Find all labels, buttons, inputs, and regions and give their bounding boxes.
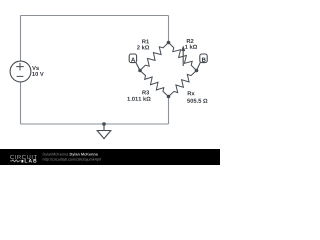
resistor Rx	[169, 71, 197, 97]
label Vs	[32, 66, 39, 70]
label R2	[187, 39, 194, 43]
value 1 kOhm	[185, 45, 197, 49]
wire left upper	[20, 16, 22, 62]
resistor R1	[140, 43, 169, 71]
ground	[103, 124, 105, 131]
credit line 1	[43, 153, 70, 157]
wire top horizontal	[21, 15, 169, 17]
logo CIRCUIT	[10, 155, 37, 159]
resistor R3	[140, 71, 169, 97]
node A pointer	[136, 62, 141, 71]
wire left lower	[20, 82, 22, 124]
footer bar	[0, 149, 220, 165]
logo LAB	[21, 160, 23, 163]
resistor R2 (variable)	[169, 43, 197, 71]
node B pointer	[197, 62, 201, 71]
R2 wiper arrow	[182, 51, 184, 66]
voltage source Vs	[10, 61, 31, 82]
wire bridge bottom riser	[168, 97, 170, 125]
value 505.5 Ohm	[187, 99, 207, 103]
junction dot bottom node	[167, 95, 171, 99]
value 1.011 kOhm	[127, 97, 150, 101]
label R1	[142, 39, 149, 43]
junction dot node A	[138, 69, 142, 73]
node B box	[200, 54, 207, 63]
junction dot node B	[195, 69, 199, 73]
value 10 V	[32, 72, 43, 76]
wire bottom horizontal	[21, 123, 169, 125]
node A box	[129, 54, 136, 63]
label Rx	[188, 91, 195, 95]
label R3	[142, 90, 149, 94]
junction dot top node	[167, 41, 171, 45]
value 2 kOhm	[137, 45, 149, 49]
junction dot ground tap	[102, 122, 106, 126]
credit line 2	[43, 158, 101, 162]
wire right drop to bridge top	[168, 16, 170, 43]
logo zigzag	[10, 160, 21, 162]
